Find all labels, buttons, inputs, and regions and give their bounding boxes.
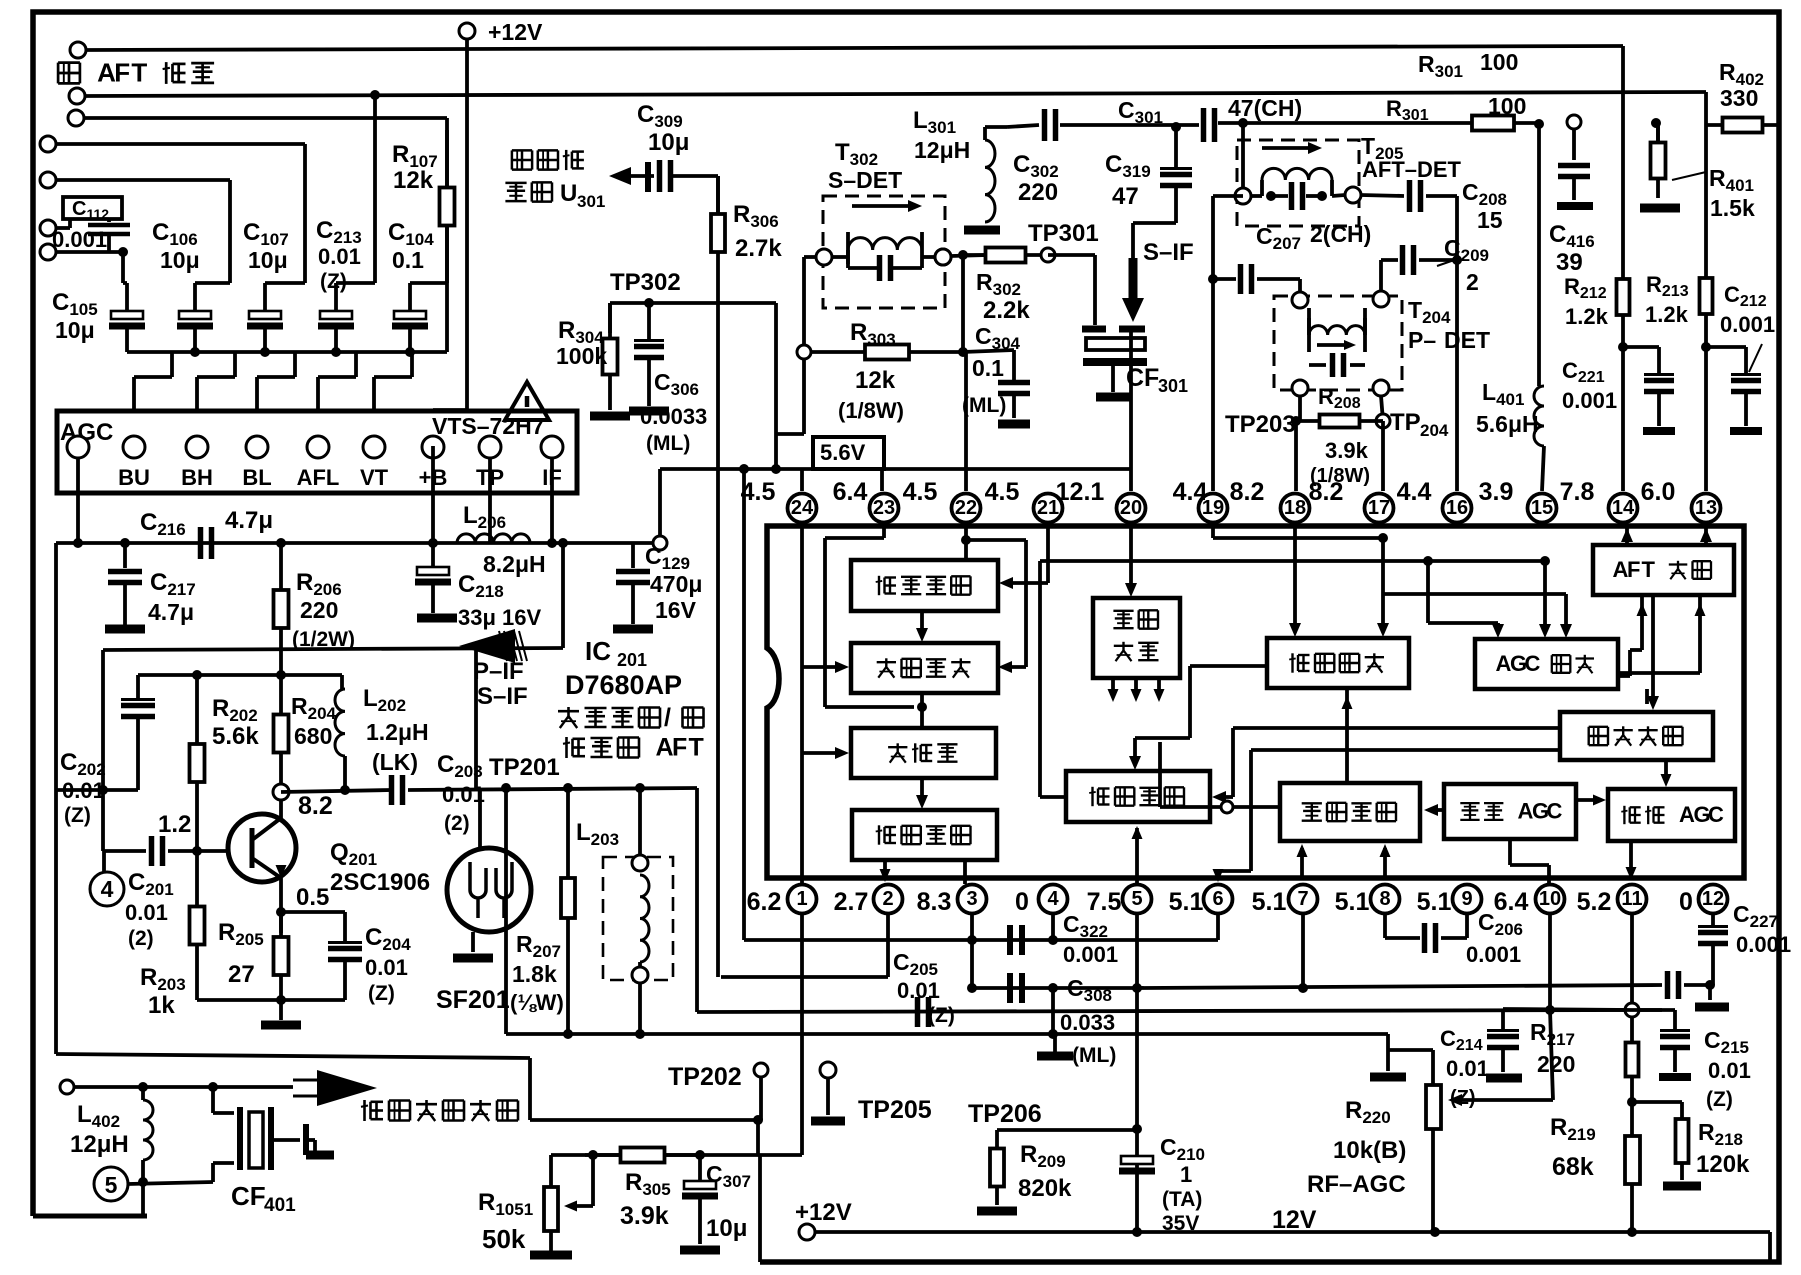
resistor R207 [566, 788, 570, 1034]
wire TP pin down [488, 458, 492, 543]
svg-text:470μ: 470μ [650, 571, 702, 597]
svg-text:12: 12 [1702, 888, 1724, 910]
svg-text:(2): (2) [444, 812, 470, 835]
svg-text:14: 14 [1612, 497, 1635, 519]
pin 2 [874, 885, 903, 914]
pin 16 [1443, 494, 1472, 523]
pin 12 [1699, 885, 1728, 914]
wire videodet feed from pin18 [1293, 521, 1297, 630]
svg-text:T: T [131, 57, 147, 87]
wire AGCdet to AFT [1640, 595, 1644, 650]
wire +B pin down to bus [431, 446, 435, 543]
wire 中放AGC to 中频放大 arrow [1432, 808, 1444, 812]
wire dropper row4 [303, 144, 307, 283]
svg-text:0.01: 0.01 [1446, 1056, 1489, 1081]
IC201 outline [767, 526, 1744, 878]
svg-text:10μ: 10μ [648, 129, 689, 156]
svg-text:2(CH): 2(CH) [1310, 221, 1371, 247]
+12V top terminal [459, 23, 475, 39]
svg-text:680: 680 [294, 723, 332, 749]
svg-text:0.5: 0.5 [296, 884, 329, 911]
svg-text:0.01: 0.01 [318, 244, 361, 269]
wire pin16 drop [1455, 196, 1459, 491]
svg-text:F: F [672, 734, 687, 762]
svg-text:(2): (2) [128, 927, 154, 950]
svg-text:6.4: 6.4 [1494, 888, 1529, 916]
block 衰减器 [851, 728, 996, 778]
block AFT输出 [1593, 545, 1734, 595]
svg-text:P–: P– [1408, 327, 1436, 353]
svg-text:1k: 1k [148, 992, 175, 1019]
wire R305 row [551, 1153, 802, 1157]
wire C227 ground [1708, 985, 1712, 1000]
wire 4.5V rail [660, 467, 1131, 471]
wire limiter to demod [920, 611, 924, 634]
wire pin5 long drop [1135, 913, 1139, 1232]
svg-text:5.1: 5.1 [1169, 888, 1204, 916]
svg-text:TP302: TP302 [610, 269, 681, 296]
svg-text:6.2: 6.2 [747, 888, 782, 916]
svg-text:12V: 12V [1272, 1206, 1317, 1234]
capacitor C107 [249, 311, 281, 319]
pin 19 [1199, 494, 1228, 523]
inductor L301 [985, 125, 1007, 129]
svg-text:8.2μH: 8.2μH [483, 551, 546, 577]
wire videodet feed from pin19 [1211, 521, 1215, 538]
svg-text:16V: 16V [655, 597, 697, 623]
svg-text:A: A [656, 734, 674, 762]
svg-text:U: U [560, 180, 577, 207]
pin 17 [1365, 494, 1394, 523]
pin 7 [1289, 885, 1318, 914]
svg-text:0.01: 0.01 [1708, 1058, 1751, 1083]
terminal 6 [40, 220, 56, 236]
pins AGC BU BH BL AFL VT +B TP IF [67, 436, 89, 458]
svg-text:0.1: 0.1 [392, 247, 424, 273]
capacitor C214 [1501, 1009, 1505, 1030]
svg-text:11: 11 [1621, 888, 1642, 910]
svg-text:BH: BH [181, 465, 213, 490]
wire CF301 out to pin20 [1129, 329, 1133, 491]
svg-text:D7680AP: D7680AP [565, 670, 682, 700]
svg-text:3.9: 3.9 [1479, 478, 1514, 506]
wire pin22 branch to demod [966, 538, 1026, 542]
pin 3 [958, 885, 987, 914]
wire audio out to pin3 [963, 860, 967, 884]
wire TP202 to bottom rail [758, 1155, 762, 1262]
wire left drop x56 [54, 543, 58, 1054]
svg-text:4.5: 4.5 [903, 478, 938, 506]
transformer T302 S-DET [823, 196, 945, 308]
wire x103 down to node4 [101, 650, 105, 851]
wire pin22 external [964, 352, 968, 491]
svg-text:F: F [1627, 557, 1640, 582]
svg-text:220: 220 [300, 597, 338, 623]
resistor R212 [1621, 277, 1625, 347]
wire R302 row [935, 249, 951, 265]
svg-text:7: 7 [1297, 888, 1308, 910]
svg-text:2.2k: 2.2k [983, 297, 1030, 324]
svg-text:201: 201 [617, 650, 647, 670]
wire TP201 bus corner down [695, 788, 699, 1012]
wire noise to videoamp [1233, 726, 1560, 730]
resistor R306 [716, 176, 720, 977]
svg-text:4: 4 [1047, 888, 1059, 910]
svg-text:12μH: 12μH [70, 1131, 129, 1158]
svg-text:12μH: 12μH [914, 137, 970, 163]
border bottom-left segment [33, 1214, 147, 1219]
svg-text:401: 401 [264, 1195, 296, 1216]
inductor L402 [143, 1100, 153, 1160]
wire AGC pin down [76, 458, 80, 543]
capacitor C215 shunt [1632, 1008, 1675, 1012]
block 中频放大 [1280, 783, 1420, 841]
svg-text:(TA): (TA) [1162, 1188, 1202, 1211]
svg-text:4.4: 4.4 [1173, 478, 1208, 506]
capacitor C218 [431, 543, 435, 568]
wire row 1012 long [697, 1010, 1662, 1012]
wire AGCdet to noise [1645, 689, 1649, 704]
wire row3 AFT bus [68, 110, 84, 126]
wire noise to pin6 [1251, 748, 1560, 752]
transformer T204 P-DET [1274, 296, 1402, 390]
svg-text:15: 15 [1477, 207, 1503, 233]
svg-text:5.1: 5.1 [1417, 888, 1452, 916]
capacitor C201 [149, 836, 155, 866]
svg-text:(⅛W): (⅛W) [510, 990, 564, 1015]
resistor R206 [279, 543, 283, 590]
svg-text:2.7: 2.7 [834, 888, 869, 916]
capacitor C105 [111, 311, 143, 319]
wire pin4 ground stem [1051, 988, 1055, 1034]
tuner VTS-72H7 box [57, 411, 577, 493]
capacitor C416 [1572, 129, 1576, 160]
svg-text:TP203: TP203 [1225, 411, 1296, 438]
wire 衰减器 to 音频放大 [920, 778, 924, 801]
wire pin10 drop [1548, 913, 1552, 1010]
svg-text:S–DET: S–DET [828, 167, 902, 193]
resistor R204 [279, 675, 283, 715]
svg-text:5.2: 5.2 [1577, 888, 1612, 916]
transistor Q201 2SC1906 [228, 814, 296, 882]
wire dropper row2 to C213 [373, 95, 377, 283]
svg-text:/: / [664, 704, 671, 732]
svg-text:8.3: 8.3 [917, 888, 952, 916]
svg-text:10μ: 10μ [248, 247, 288, 273]
wire pin24-pin1 spine [800, 521, 804, 884]
svg-text:0.01: 0.01 [365, 955, 408, 980]
wire T205 left to pin19 drop [1213, 194, 1243, 198]
wire bus B y675 [138, 673, 342, 677]
svg-text:10k(B): 10k(B) [1333, 1137, 1406, 1164]
svg-text:24: 24 [791, 497, 814, 519]
wire 中放AGC to 延迟AGC [1576, 798, 1600, 802]
wire main bus y543 [56, 541, 660, 545]
wire row2 AFT bus [69, 88, 85, 104]
svg-text:S–IF: S–IF [1143, 239, 1194, 266]
wire pin22 stem [964, 521, 968, 560]
svg-text:20: 20 [1120, 497, 1142, 519]
svg-text:(1/8W): (1/8W) [838, 398, 904, 423]
wire AFT box pins [1625, 528, 1629, 545]
resistor R219 [1630, 1102, 1634, 1232]
terminal 5 [94, 1167, 128, 1201]
wire pin24 dropper x744 [742, 469, 746, 940]
pin 23 [870, 494, 899, 523]
arrow 视频色度电路 [317, 1070, 377, 1106]
svg-text:204: 204 [1420, 421, 1449, 440]
svg-text:(Z): (Z) [368, 982, 395, 1005]
capacitor C319 [1174, 127, 1178, 170]
capacitor C212 [1706, 345, 1746, 349]
svg-text:10: 10 [1539, 888, 1561, 910]
svg-text:3.9k: 3.9k [620, 1202, 669, 1230]
pin 4 [1039, 885, 1068, 914]
svg-text:0.001: 0.001 [1720, 312, 1775, 337]
svg-text:F: F [114, 57, 130, 87]
wire video out path [56, 1054, 530, 1058]
wire row 940 C322 [744, 938, 1218, 942]
svg-text:18: 18 [1284, 497, 1306, 519]
svg-text:10μ: 10μ [160, 247, 200, 273]
svg-text:2: 2 [882, 888, 893, 910]
svg-text:8.2: 8.2 [298, 792, 333, 820]
svg-text:100: 100 [1480, 49, 1518, 75]
svg-text:4.5: 4.5 [985, 478, 1020, 506]
resistor R301 [1447, 121, 1472, 125]
wire demod out node [920, 693, 924, 728]
svg-text:4.7μ: 4.7μ [148, 599, 194, 625]
capacitor C227 pin12 [1711, 913, 1715, 925]
resistor R218 [1680, 1102, 1684, 1119]
pin 15 [1528, 494, 1557, 523]
wire row 1009 right [1503, 1009, 1632, 1010]
svg-text:TP201: TP201 [489, 754, 560, 781]
svg-text:2.7k: 2.7k [735, 235, 782, 262]
wire C301 to R301 [1218, 121, 1447, 125]
wire IF pin down [550, 458, 554, 543]
capacitor C216 [198, 527, 204, 559]
pin 9 [1453, 885, 1482, 914]
wire row985 right segment [1137, 985, 1662, 988]
svg-text:23: 23 [873, 497, 895, 519]
wire node circle left of IFamp [1221, 801, 1233, 813]
block 限幅放大 [851, 560, 998, 611]
filter CF401 [211, 1087, 215, 1113]
svg-text:P–IF: P–IF [473, 658, 524, 685]
svg-text:C: C [1708, 802, 1724, 827]
wire AFT to noise [1651, 595, 1655, 704]
potentiometer R220 [1431, 1085, 1435, 1232]
wire row1 to pin14 drop / R212 [1621, 46, 1625, 277]
pin 18 [1281, 494, 1310, 523]
wire dropper row5 [228, 180, 232, 283]
svg-text:50k: 50k [482, 1224, 526, 1254]
pin 8 [1371, 885, 1400, 914]
svg-text:+12V: +12V [795, 1199, 852, 1226]
wire pin18 pin17 stems [1294, 421, 1298, 491]
svg-text:2: 2 [1466, 269, 1479, 295]
capacitor C302 [1042, 109, 1048, 141]
wire videodet up from IF amp [1345, 688, 1349, 783]
pin 21 [1034, 494, 1063, 523]
node 8.2 [273, 784, 289, 800]
capacitor C106 [179, 311, 211, 319]
svg-text:CF: CF [231, 1181, 266, 1211]
svg-text:(ML): (ML) [962, 394, 1006, 417]
wire T302 left to R303 rail [804, 255, 816, 259]
svg-text:9: 9 [1461, 888, 1472, 910]
svg-text:5: 5 [105, 1172, 118, 1198]
wire row 977 R306-pin2 [721, 975, 888, 979]
svg-text:BL: BL [242, 465, 271, 490]
svg-text:5.6μH: 5.6μH [1476, 411, 1539, 437]
svg-text:301: 301 [577, 192, 605, 211]
svg-text:AFL: AFL [297, 465, 340, 490]
bottom border right part [760, 1260, 1779, 1265]
svg-text:7.5: 7.5 [1087, 888, 1122, 916]
wire emitter down [279, 878, 283, 933]
svg-text:TP301: TP301 [1028, 220, 1099, 247]
svg-text:4.7μ: 4.7μ [225, 507, 273, 534]
wire R303-C304 node [958, 347, 968, 357]
svg-text:6.4: 6.4 [833, 478, 868, 506]
capacitor C309 [645, 162, 651, 192]
svg-text:16: 16 [1446, 497, 1468, 519]
wire base line [103, 849, 146, 853]
svg-text:12k: 12k [393, 167, 434, 194]
wire pin1 stem down [800, 913, 804, 1155]
wire stair drops to tuner pins [170, 352, 174, 377]
wire audio out to pin2 [883, 860, 887, 876]
wire into 调频解调 left [802, 665, 840, 669]
pin 10 [1536, 885, 1565, 914]
block AGC检波 [1475, 639, 1618, 689]
resistor R401 [1656, 123, 1660, 147]
resistor R304 [608, 303, 612, 333]
wire C309 to R306 [672, 174, 718, 178]
svg-text:4: 4 [101, 876, 114, 902]
wire row2 to pin13 drop / R213 [1704, 92, 1708, 276]
svg-text:C: C [1547, 799, 1563, 824]
svg-text:1.2k: 1.2k [1565, 304, 1609, 329]
wire TP302 to pin24 rail [774, 303, 778, 469]
wire row5 [40, 172, 56, 188]
wire emitter ground bus [197, 998, 345, 1002]
capacitor C304 [961, 255, 965, 352]
terminal 4 [90, 872, 124, 906]
inductor L206 [457, 534, 530, 543]
resistor R303 [811, 350, 865, 354]
resistor R217 [1630, 1017, 1634, 1043]
inductor L203 [603, 857, 673, 980]
svg-text:DET: DET [1444, 327, 1490, 353]
svg-text:13: 13 [1695, 497, 1717, 519]
svg-text:100: 100 [1488, 93, 1526, 119]
svg-text:220: 220 [1537, 1051, 1575, 1077]
svg-text:4.5: 4.5 [741, 478, 776, 506]
svg-text:33μ 16V: 33μ 16V [458, 605, 542, 630]
svg-text:C: C [1525, 651, 1541, 676]
potentiometer R1051 [549, 1155, 553, 1187]
capacitor C129 [631, 543, 635, 568]
block 延迟AGC [1608, 789, 1735, 841]
svg-text:0.01: 0.01 [897, 978, 940, 1003]
svg-text:5.6V: 5.6V [820, 440, 866, 465]
svg-text:1.2μH: 1.2μH [366, 719, 429, 745]
svg-text:6: 6 [1212, 888, 1223, 910]
svg-text:5.1: 5.1 [1335, 888, 1370, 916]
svg-text:0: 0 [1015, 888, 1029, 916]
capacitor C205 [915, 997, 921, 1027]
svg-text:12.1: 12.1 [1056, 478, 1105, 506]
pin 20 [1117, 494, 1146, 523]
filter CF301 [1048, 253, 1095, 257]
capacitor C308 [1007, 973, 1013, 1003]
resistor R107 [445, 130, 449, 188]
svg-text:100k: 100k [556, 343, 607, 369]
svg-text:TP: TP [1390, 409, 1421, 436]
capacitor C215 series [1665, 971, 1671, 999]
svg-text:220: 220 [1018, 179, 1058, 206]
wire pin7 stem [1301, 913, 1305, 988]
svg-text:5.6k: 5.6k [212, 723, 259, 750]
svg-text:0.01: 0.01 [62, 778, 105, 803]
wire videodet to videoamp [1190, 664, 1267, 668]
wire cap ground bus [127, 350, 447, 354]
pin 11 [1618, 885, 1647, 914]
svg-text:0.033: 0.033 [1060, 1010, 1115, 1035]
wire pin21 into limiter [1046, 521, 1050, 583]
wire videoamp up from pin5 [1135, 828, 1139, 884]
wire C319 to S-IF [1133, 221, 1176, 225]
wire bias outputs [1111, 678, 1115, 694]
svg-text:0.001: 0.001 [1736, 932, 1791, 957]
svg-text:(Z): (Z) [928, 1004, 955, 1027]
capacitor C213 [320, 311, 352, 319]
capacitor C202 [136, 675, 140, 701]
box 5.6V [813, 437, 884, 469]
wire C105 dropper [121, 252, 125, 283]
svg-text:1.2k: 1.2k [1645, 302, 1689, 327]
resistor R205 [279, 912, 283, 937]
node R303 left [797, 345, 811, 359]
wire collector to C203 [281, 790, 392, 792]
block 消噪电路 [1560, 712, 1713, 760]
warning triangle [505, 382, 549, 420]
block 调频解调 [851, 643, 998, 693]
block 音频放大 [852, 810, 997, 860]
wire pin23 stem [880, 469, 884, 491]
wire circle5 loop [141, 1182, 145, 1216]
svg-text:17: 17 [1368, 497, 1390, 519]
wire pin3 stem [970, 913, 974, 940]
wire pin11 drop [1630, 913, 1634, 1003]
capacitor C221 [1623, 345, 1659, 349]
svg-text:0.001: 0.001 [1466, 942, 1521, 967]
testpoint TP203 row R208 [1298, 396, 1302, 421]
svg-text:+12V: +12V [488, 19, 543, 45]
terminal 7 [40, 244, 56, 260]
pin 1 [788, 885, 817, 914]
capacitor C301 47(CH) [1201, 108, 1207, 142]
wire AGCdet feeds [1383, 592, 1566, 596]
svg-text:8.2: 8.2 [1230, 478, 1265, 506]
capacitor C206 pins8-9 [1383, 913, 1387, 938]
svg-text:2SC1906: 2SC1906 [330, 869, 430, 896]
svg-text:0.001: 0.001 [1562, 388, 1617, 413]
svg-text:AFT–DET: AFT–DET [1362, 157, 1462, 182]
